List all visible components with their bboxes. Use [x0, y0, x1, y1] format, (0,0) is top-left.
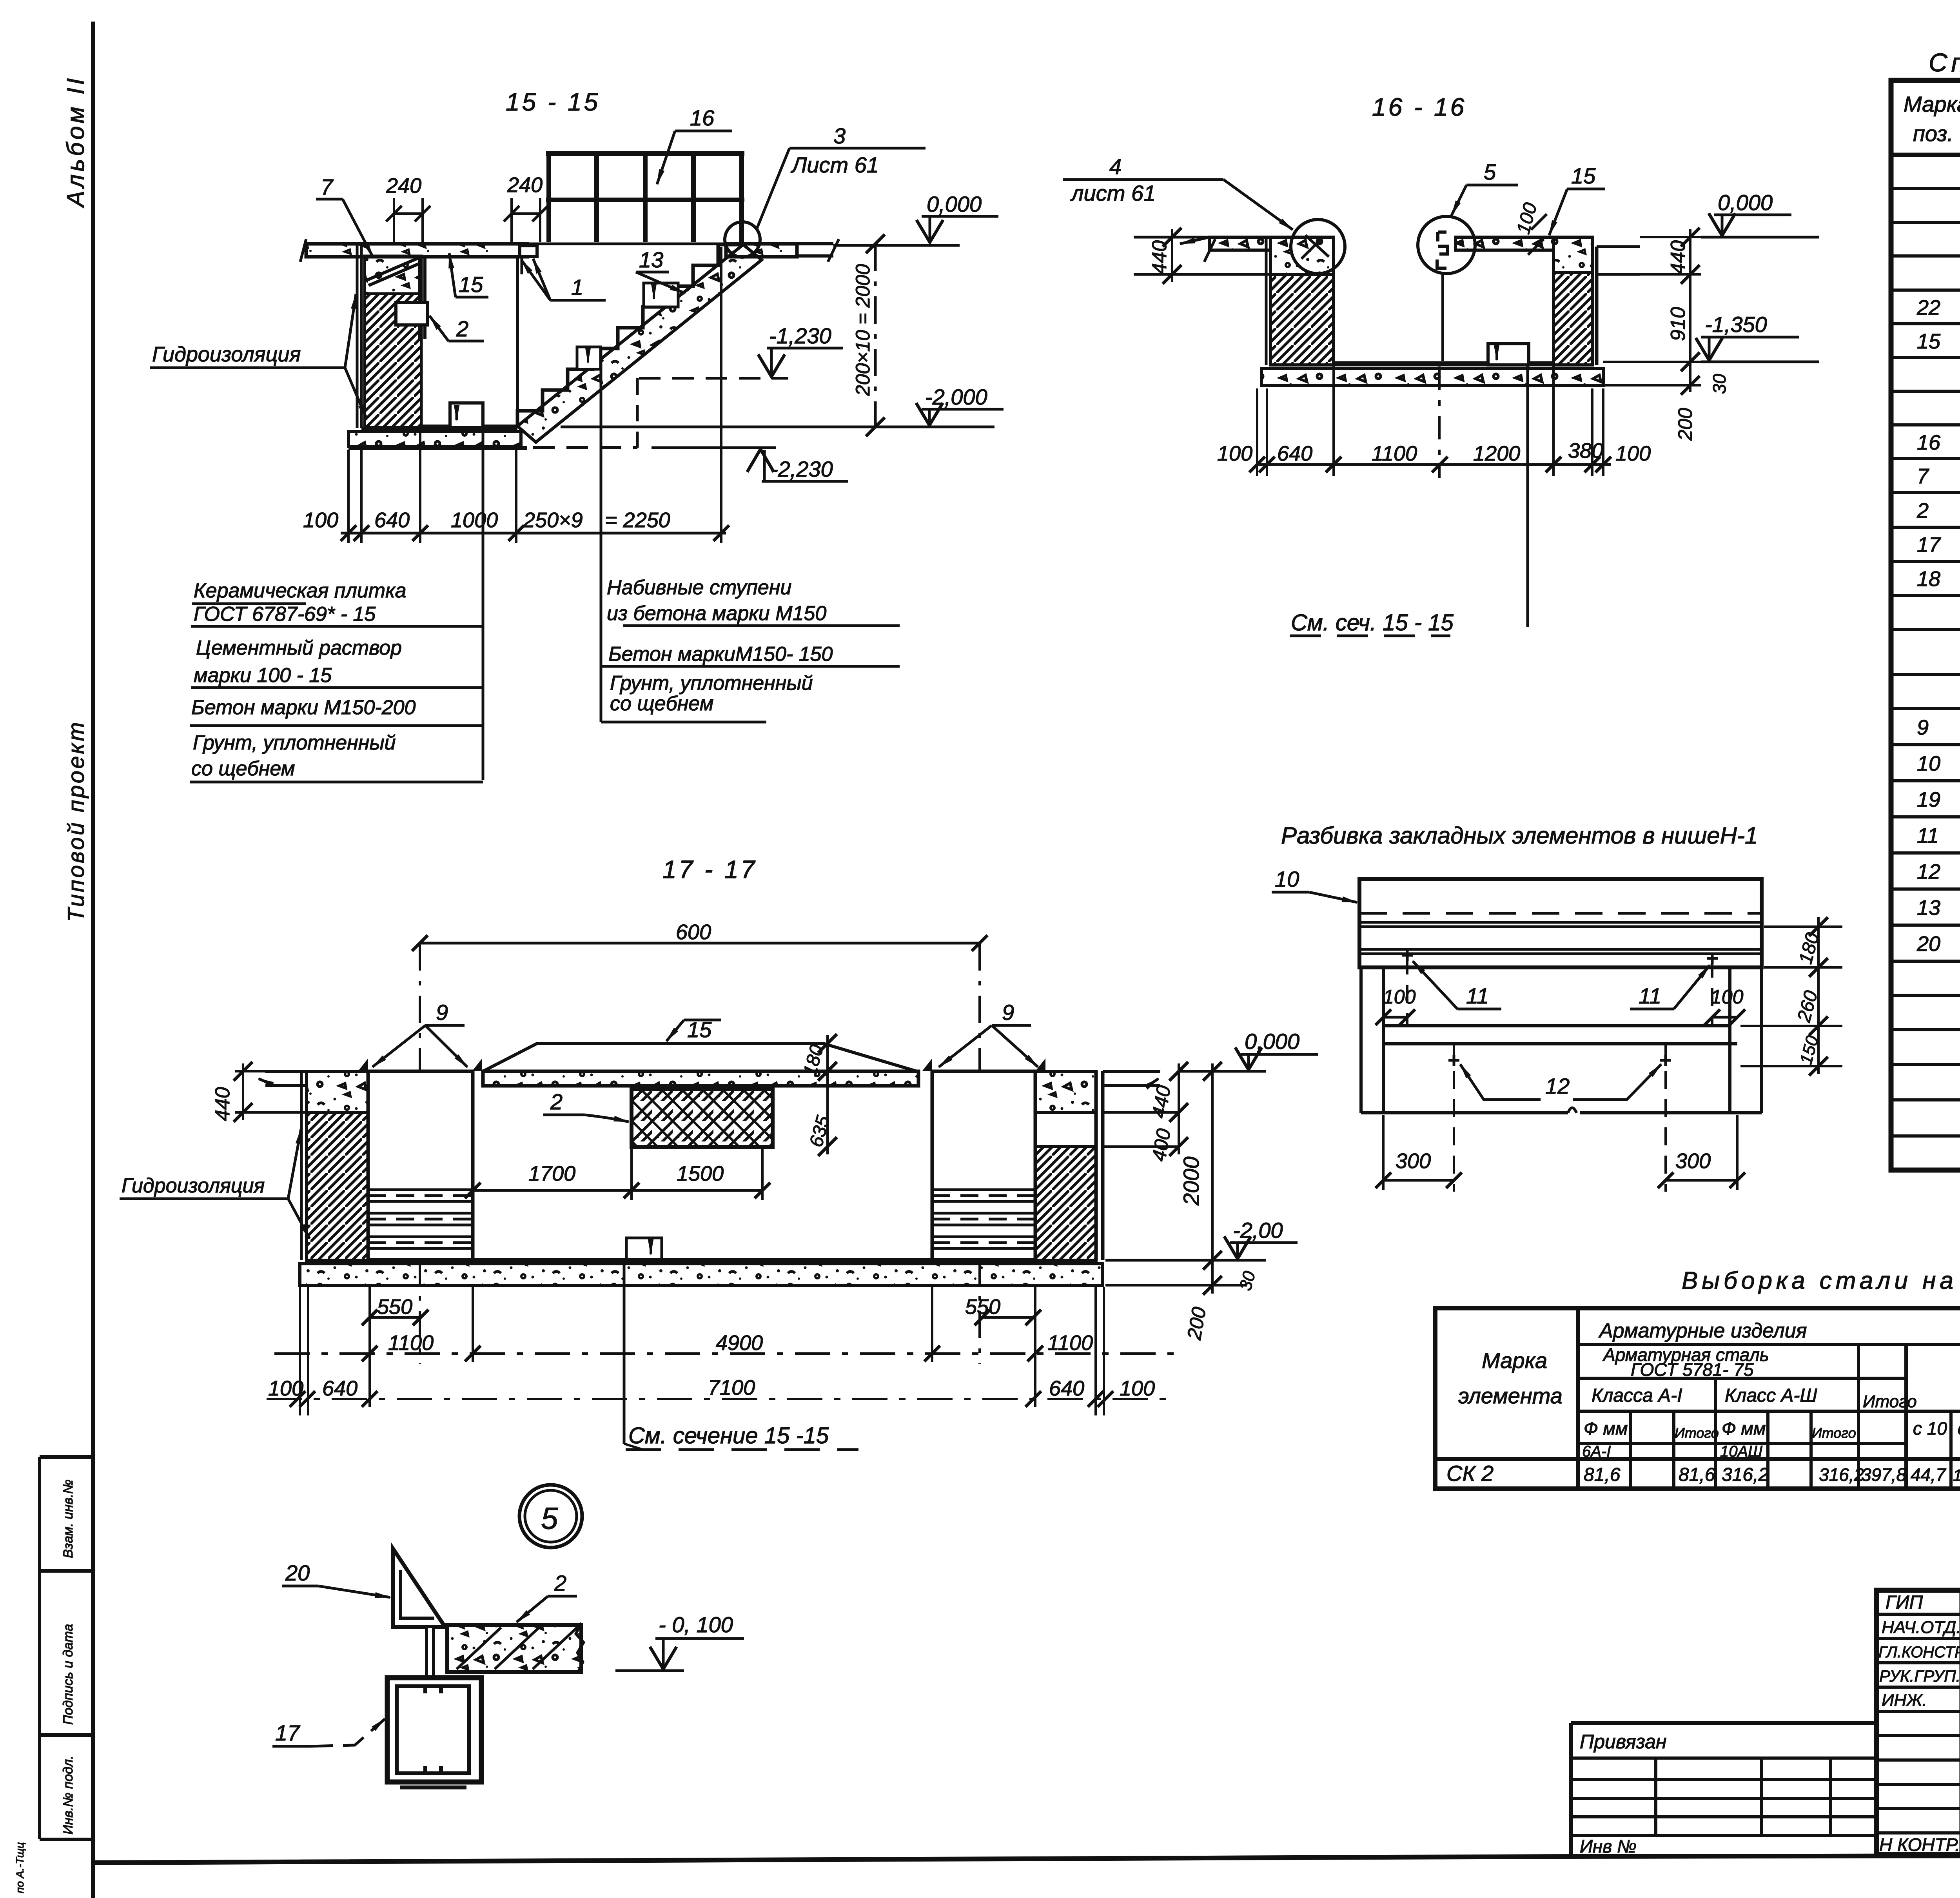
svg-text:Лист 61: Лист 61	[791, 152, 879, 177]
svg-text:7: 7	[1917, 465, 1929, 488]
svg-text:100: 100	[303, 508, 338, 532]
svg-text:440: 440	[211, 1087, 234, 1121]
svg-text:1500: 1500	[677, 1162, 724, 1185]
svg-text:20: 20	[1916, 932, 1940, 956]
svg-text:316,2: 316,2	[1722, 1464, 1769, 1485]
svg-text:1200: 1200	[1473, 442, 1520, 465]
svg-text:9: 9	[436, 1000, 448, 1025]
svg-text:910: 910	[1667, 307, 1690, 341]
svg-text:100: 100	[1615, 442, 1651, 465]
svg-text:640: 640	[322, 1377, 358, 1400]
svg-text:Цементный раствор: Цементный раствор	[196, 637, 402, 659]
svg-text:13: 13	[1917, 896, 1940, 920]
svg-text:17: 17	[275, 1720, 300, 1745]
svg-text:3: 3	[833, 123, 846, 148]
svg-text:397,8: 397,8	[1861, 1464, 1907, 1485]
svg-text:12: 12	[1545, 1074, 1570, 1098]
svg-text:1: 1	[571, 275, 583, 299]
svg-text:640: 640	[374, 508, 410, 532]
svg-text:со щебнем: со щебнем	[191, 757, 295, 780]
svg-text:Типовой проект: Типовой проект	[64, 720, 89, 922]
svg-text:9: 9	[1917, 716, 1929, 739]
svg-text:16: 16	[1917, 431, 1941, 454]
svg-text:240: 240	[507, 173, 543, 197]
svg-text:250×9: 250×9	[523, 508, 583, 532]
svg-text:550: 550	[377, 1295, 412, 1319]
svg-text:Керамическая плитка: Керамическая плитка	[194, 579, 407, 602]
svg-text:марки 100 - 15: марки 100 - 15	[194, 664, 332, 687]
svg-text:440: 440	[1148, 240, 1171, 274]
svg-text:Грунт, уплотненный: Грунт, уплотненный	[193, 731, 396, 754]
svg-text:4900: 4900	[716, 1331, 763, 1355]
svg-text:19: 19	[1917, 788, 1940, 811]
svg-text:Марка,: Марка,	[1904, 92, 1960, 116]
svg-text:Грунт, уплотненный: Грунт, уплотненный	[610, 672, 813, 695]
svg-text:5: 5	[1484, 160, 1496, 184]
svg-text:1700: 1700	[528, 1162, 575, 1185]
svg-text:0,000: 0,000	[1718, 190, 1773, 215]
svg-text:15: 15	[459, 272, 483, 297]
svg-text:10АШ: 10АШ	[1720, 1443, 1762, 1460]
svg-text:44,7: 44,7	[1911, 1464, 1946, 1485]
svg-text:ГОСТ 5781- 75: ГОСТ 5781- 75	[1631, 1359, 1754, 1380]
svg-text:100: 100	[1217, 442, 1252, 465]
svg-text:600: 600	[676, 920, 711, 944]
svg-text:РУК.ГРУП.: РУК.ГРУП.	[1879, 1667, 1960, 1685]
svg-text:200: 200	[1674, 408, 1696, 441]
svg-text:100: 100	[1120, 1377, 1155, 1400]
svg-text:Выборка стали на один элем: Выборка стали на один элемент, кг	[1682, 1267, 1960, 1294]
svg-text:10: 10	[1275, 867, 1299, 891]
svg-text:640: 640	[1049, 1377, 1084, 1400]
svg-text:Инв №: Инв №	[1580, 1836, 1637, 1856]
svg-text:16 - 16: 16 - 16	[1372, 93, 1466, 121]
svg-text:15: 15	[1571, 163, 1596, 188]
svg-text:81,6: 81,6	[1679, 1464, 1715, 1485]
svg-text:11: 11	[1917, 824, 1939, 847]
svg-text:300: 300	[1675, 1149, 1711, 1173]
svg-text:поз.: поз.	[1913, 121, 1953, 146]
svg-text:1082,4: 1082,4	[1953, 1466, 1960, 1484]
svg-text:11: 11	[1466, 983, 1489, 1008]
svg-text:240: 240	[386, 174, 421, 198]
svg-text:22: 22	[1916, 296, 1940, 319]
svg-text:0,000: 0,000	[1245, 1029, 1299, 1054]
svg-text:1000: 1000	[451, 508, 498, 532]
svg-text:17: 17	[1917, 533, 1941, 557]
svg-text:30: 30	[1709, 374, 1730, 394]
svg-text:18: 18	[1917, 567, 1940, 591]
svg-text:2: 2	[456, 316, 468, 341]
svg-text:2000: 2000	[1179, 1156, 1203, 1206]
svg-text:-2,00: -2,00	[1233, 1218, 1283, 1243]
svg-text:440: 440	[1667, 240, 1690, 274]
svg-text:9: 9	[1002, 1000, 1014, 1025]
svg-text:ГИП: ГИП	[1886, 1592, 1923, 1613]
svg-text:6А-I: 6А-I	[1582, 1443, 1611, 1460]
svg-text:-1,350: -1,350	[1705, 312, 1767, 337]
svg-text:13: 13	[639, 247, 663, 272]
svg-text:0,000: 0,000	[927, 192, 982, 216]
svg-text:См. сеч. 15 - 15: См. сеч. 15 - 15	[1291, 610, 1454, 635]
svg-text:-2,230: -2,230	[771, 457, 833, 481]
svg-text:Арматурные изделия: Арматурные изделия	[1598, 1319, 1807, 1342]
svg-text:ИНЖ.: ИНЖ.	[1882, 1691, 1927, 1710]
svg-text:4: 4	[1109, 154, 1122, 179]
svg-text:2: 2	[550, 1089, 563, 1114]
svg-text:лист 61: лист 61	[1070, 181, 1156, 205]
svg-text:640: 640	[1277, 442, 1312, 465]
svg-text:20: 20	[285, 1560, 310, 1585]
svg-text:Итого: Итого	[1675, 1425, 1719, 1441]
svg-text:300: 300	[1396, 1149, 1431, 1173]
svg-text:с 14: с 14	[1958, 1418, 1960, 1439]
svg-text:Бетон маркиМ150- 150: Бетон маркиМ150- 150	[608, 643, 833, 666]
svg-text:НАЧ.ОТД.: НАЧ.ОТД.	[1882, 1618, 1960, 1637]
svg-text:100: 100	[1383, 986, 1416, 1008]
svg-text:ГЛ.КОНСТР.: ГЛ.КОНСТР.	[1878, 1644, 1960, 1661]
svg-text:200×10 = 2000: 200×10 = 2000	[852, 264, 874, 396]
svg-text:Разбивка закладных элементов в: Разбивка закладных элементов в нишеН-1	[1281, 822, 1758, 849]
svg-text:Привязан: Привязан	[1580, 1731, 1667, 1753]
svg-text:7100: 7100	[708, 1376, 755, 1399]
svg-text:100: 100	[268, 1377, 303, 1400]
svg-text:Марка: Марка	[1482, 1348, 1547, 1373]
svg-text:380: 380	[1568, 439, 1603, 463]
svg-text:- 0, 100: - 0, 100	[659, 1612, 733, 1637]
svg-text:Взам. инв.№: Взам. инв.№	[61, 1479, 76, 1558]
svg-text:Итого: Итого	[1812, 1425, 1856, 1441]
svg-text:со щебнем: со щебнем	[610, 692, 713, 715]
svg-text:15: 15	[1917, 330, 1941, 353]
svg-text:12: 12	[1917, 860, 1940, 884]
svg-text:СК 2: СК 2	[1446, 1461, 1494, 1486]
svg-text:по А.-Тщц: по А.-Тщц	[14, 1842, 26, 1893]
svg-text:Набивные ступени: Набивные ступени	[607, 576, 791, 599]
svg-text:Класс А-Ш: Класс А-Ш	[1725, 1385, 1817, 1406]
svg-text:1100: 1100	[1372, 442, 1417, 465]
svg-text:Ф мм: Ф мм	[1722, 1418, 1766, 1439]
svg-text:Инв.№ подл.: Инв.№ подл.	[61, 1755, 76, 1834]
svg-text:с 10: с 10	[1913, 1418, 1947, 1439]
svg-text:17 - 17: 17 - 17	[662, 855, 757, 884]
svg-text:1100: 1100	[388, 1331, 434, 1355]
svg-text:из бетона марки М150: из бетона марки М150	[607, 602, 826, 625]
svg-text:10: 10	[1917, 752, 1940, 775]
svg-text:2: 2	[554, 1571, 566, 1595]
svg-text:316,2: 316,2	[1819, 1464, 1864, 1485]
svg-text:16: 16	[690, 105, 715, 130]
svg-text:100: 100	[1711, 986, 1744, 1008]
svg-text:-1,230: -1,230	[769, 323, 831, 348]
svg-text:ГОСТ 6787-69* - 15: ГОСТ 6787-69* - 15	[194, 603, 376, 626]
svg-text:= 2250: = 2250	[605, 508, 670, 532]
svg-text:550: 550	[965, 1295, 1000, 1319]
svg-text:11: 11	[1639, 983, 1661, 1008]
svg-text:Подпись и дата: Подпись и дата	[61, 1624, 76, 1725]
svg-text:5: 5	[541, 1501, 558, 1535]
svg-text:См. сечение 15 -15: См. сечение 15 -15	[628, 1423, 829, 1448]
svg-text:Гидроизоляция: Гидроизоляция	[122, 1174, 265, 1197]
svg-text:Гидроизоляция: Гидроизоляция	[152, 343, 301, 366]
svg-text:7: 7	[321, 174, 334, 199]
svg-text:Н КОНТР.: Н КОНТР.	[1879, 1834, 1960, 1855]
svg-text:Спецификация элементов СК 2: Спецификация элементов СК 2	[1929, 48, 1960, 77]
svg-text:81,6: 81,6	[1584, 1464, 1621, 1485]
svg-text:15 - 15: 15 - 15	[506, 88, 600, 116]
svg-text:Ф мм: Ф мм	[1584, 1418, 1628, 1439]
svg-text:элемента: элемента	[1458, 1383, 1563, 1408]
svg-text:Класса А-I: Класса А-I	[1592, 1385, 1682, 1406]
svg-text:1100: 1100	[1047, 1331, 1093, 1355]
svg-text:Бетон марки М150-200: Бетон марки М150-200	[191, 696, 416, 719]
svg-text:2: 2	[1916, 499, 1929, 523]
svg-text:Итого: Итого	[1863, 1392, 1917, 1411]
svg-text:-2,000: -2,000	[925, 385, 987, 409]
svg-text:Альбом II: Альбом II	[62, 76, 89, 209]
